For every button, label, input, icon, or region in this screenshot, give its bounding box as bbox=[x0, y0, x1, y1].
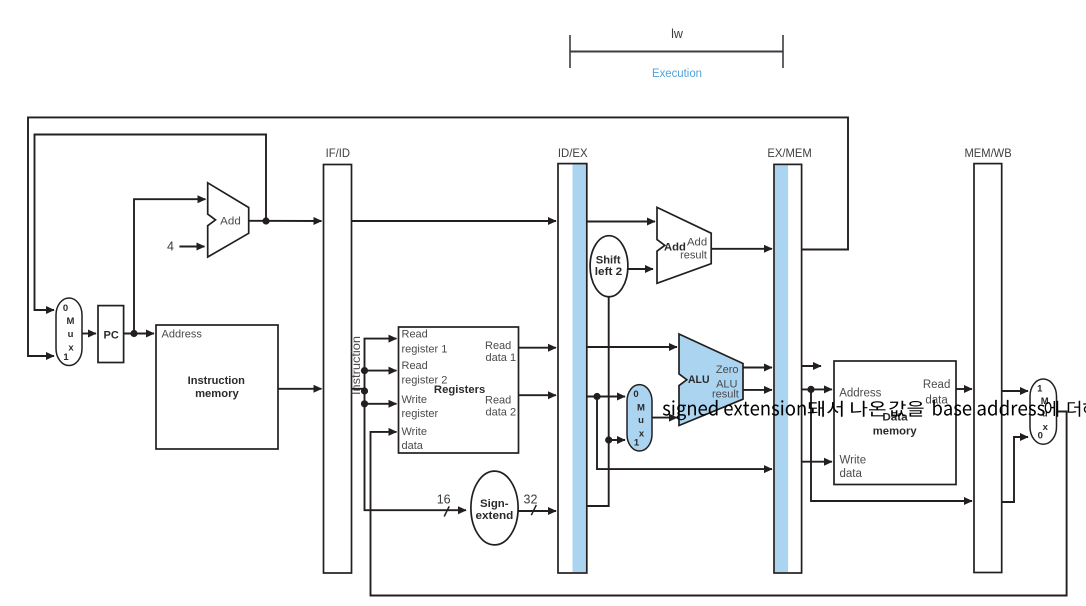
svg-text:Execution: Execution bbox=[652, 68, 702, 80]
svg-text:left 2: left 2 bbox=[595, 266, 623, 278]
wire: PC -> instruction memory address (junction) bbox=[124, 333, 154, 335]
svg-text:x: x bbox=[639, 428, 645, 439]
svg-text:u: u bbox=[638, 415, 644, 426]
adder Add (PC+4) bbox=[208, 183, 249, 257]
adder Add2 (branch target) bbox=[657, 207, 711, 283]
svg-text:memory: memory bbox=[195, 388, 239, 400]
wire: read data 1 -> ALU bbox=[587, 346, 677, 348]
svg-text:x: x bbox=[68, 343, 74, 354]
svg-text:Address: Address bbox=[839, 387, 881, 399]
svg-text:0: 0 bbox=[1038, 431, 1043, 442]
svg-text:0: 0 bbox=[63, 303, 68, 314]
svg-text:EX/MEM: EX/MEM bbox=[767, 146, 811, 160]
wire: read data -> MEM/WB bbox=[956, 388, 972, 390]
svg-text:Write: Write bbox=[402, 394, 427, 406]
svg-text:Registers: Registers bbox=[434, 384, 485, 396]
wire: PC value up to Add bbox=[134, 199, 206, 333]
svg-text:Sign-: Sign- bbox=[480, 498, 509, 510]
registers file bbox=[399, 327, 519, 453]
svg-text:x: x bbox=[1043, 422, 1049, 433]
mux M3 (ALU source, highlighted) bbox=[627, 385, 652, 451]
svg-text:Write: Write bbox=[840, 455, 867, 467]
wire: shift left 2 -> Add2 bbox=[628, 268, 653, 270]
svg-text:Zero: Zero bbox=[716, 364, 739, 376]
wire: ALU result -> WB mux input 0 bbox=[1002, 437, 1028, 502]
register PC bbox=[98, 306, 124, 363]
svg-text:PC: PC bbox=[104, 330, 119, 342]
wire: Add2 result -> EX/MEM bbox=[711, 248, 772, 250]
write-back loop: mux -> registers write data bbox=[371, 412, 1067, 596]
wire: branch-target feedback (EX/MEM -> PC mux input 1) bbox=[28, 117, 848, 356]
wire: ALU result bypass -> MEM/WB bbox=[811, 389, 972, 501]
wire: read data 2 -> ID/EX bbox=[519, 394, 557, 396]
svg-text:Add: Add bbox=[220, 215, 241, 227]
svg-text:Instruction: Instruction bbox=[351, 336, 363, 395]
wire: PC+4 ID/EX -> Add2 bbox=[587, 221, 655, 223]
svg-text:u: u bbox=[68, 329, 74, 340]
wire: 4 -> Add bbox=[179, 246, 204, 248]
pipeline register IF/ID bbox=[324, 165, 352, 574]
shift left 2 unit bbox=[590, 236, 628, 297]
svg-text:register: register bbox=[402, 408, 439, 420]
mux M2 (write-back source) bbox=[1030, 379, 1057, 444]
pipeline register EX/MEM (MEM-side half highlighted) bbox=[774, 164, 802, 573]
svg-text:Read: Read bbox=[485, 340, 511, 352]
svg-text:16: 16 bbox=[437, 492, 451, 506]
svg-text:data 1: data 1 bbox=[486, 352, 517, 364]
wire: instruction -> write register bbox=[365, 403, 397, 405]
wire: ALU result -> EX/MEM bbox=[743, 389, 772, 391]
ALU (highlighted) bbox=[679, 334, 743, 426]
wire: read data 2 -> ALU-src mux / EX/MEM passthrough bbox=[587, 396, 625, 398]
wire: zero flag out (unused) bbox=[802, 365, 821, 367]
wire: write data -> data memory bbox=[802, 461, 832, 463]
svg-text:extend: extend bbox=[476, 510, 514, 522]
wire: sign-extend out (32 bits) -> ID/EX bbox=[518, 510, 556, 512]
svg-text:Read: Read bbox=[402, 360, 428, 372]
svg-text:1: 1 bbox=[63, 352, 69, 363]
svg-text:ID/EX: ID/EX bbox=[558, 146, 588, 160]
top bracket: lw instruction span bbox=[570, 35, 783, 68]
svg-text:Address: Address bbox=[162, 329, 203, 341]
wire: Add out -> IF/ID (junction dot) bbox=[249, 220, 322, 222]
svg-text:register 1: register 1 bbox=[402, 343, 448, 355]
svg-text:0: 0 bbox=[633, 389, 638, 400]
wire: ALU zero -> EX/MEM bbox=[743, 367, 772, 369]
instruction memory bbox=[156, 325, 278, 449]
wire: PC+4 feedback (Add out -> PC mux input 0) bbox=[35, 135, 267, 311]
wire: instruction -> read register 2 bbox=[365, 370, 397, 372]
sign-extend unit bbox=[471, 471, 518, 545]
svg-text:ALU: ALU bbox=[688, 374, 710, 386]
svg-text:M: M bbox=[67, 316, 75, 327]
svg-text:data: data bbox=[840, 468, 863, 480]
pipeline register MEM/WB bbox=[974, 164, 1002, 573]
svg-text:Read: Read bbox=[402, 329, 428, 341]
wire: mux -> PC bbox=[82, 333, 96, 335]
svg-text:memory: memory bbox=[873, 425, 918, 437]
svg-text:data: data bbox=[402, 440, 424, 452]
svg-text:lw: lw bbox=[671, 27, 684, 41]
wire: instruction -> sign extend (16 bits) bbox=[365, 391, 467, 510]
svg-text:result: result bbox=[712, 388, 739, 400]
annotation: signed extension... (Korean) bbox=[663, 400, 1086, 420]
svg-text:M: M bbox=[637, 402, 645, 413]
svg-text:MEM/WB: MEM/WB bbox=[965, 146, 1012, 160]
wire: immediate -> mux input 1 and shift-left-2 bbox=[587, 297, 609, 506]
svg-text:Shift: Shift bbox=[596, 254, 621, 266]
pipeline register ID/EX (EX-side half highlighted) bbox=[558, 164, 587, 573]
mux M1 (PC source) bbox=[56, 298, 82, 366]
svg-text:Write: Write bbox=[402, 426, 427, 438]
data memory bbox=[834, 361, 956, 485]
wire: PC+4 IF/ID -> ID/EX bbox=[352, 220, 557, 222]
wire: read data 1 -> ID/EX bbox=[519, 347, 557, 349]
wire: instruction bus out of IF/ID bbox=[352, 339, 397, 389]
svg-text:1: 1 bbox=[1037, 383, 1043, 394]
svg-text:Instruction: Instruction bbox=[188, 375, 245, 387]
svg-text:Add: Add bbox=[687, 236, 707, 248]
svg-text:data 2: data 2 bbox=[486, 407, 517, 419]
svg-text:Read: Read bbox=[923, 379, 951, 391]
svg-text:IF/ID: IF/ID bbox=[326, 146, 351, 160]
svg-text:32: 32 bbox=[524, 493, 538, 507]
wire: ALU result -> data memory address bbox=[802, 388, 832, 390]
svg-text:1: 1 bbox=[634, 437, 640, 448]
svg-text:Read: Read bbox=[485, 394, 511, 406]
svg-text:4: 4 bbox=[167, 239, 174, 253]
wire: instruction memory -> IF/ID bbox=[278, 388, 322, 390]
wire: memory data -> WB mux input 1 bbox=[1002, 390, 1028, 392]
wire: mux -> ALU bbox=[652, 417, 677, 419]
svg-text:result: result bbox=[680, 249, 707, 261]
